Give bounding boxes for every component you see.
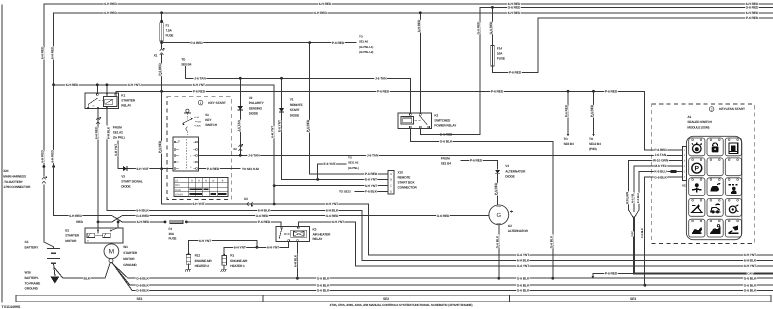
svg-text:MODULE (SSM): MODULE (SSM): [687, 125, 709, 129]
wire G-6 RED rail to alternator: [98, 214, 489, 222]
svg-text:X10: X10: [398, 171, 404, 175]
alternator G2: [489, 205, 529, 233]
wire P-6 RED to SE1 H-52: [199, 167, 260, 171]
svg-text:G-6 BLK: G-6 BLK: [495, 235, 499, 248]
svg-text:P-6 RED: P-6 RED: [365, 172, 378, 176]
svg-text:J-6 TAN: J-6 TAN: [655, 153, 667, 157]
wire J-6 TAN upper from TO SE0 B4: [181, 58, 410, 114]
svg-text:S1: S1: [205, 113, 209, 117]
svg-text:GROUND: GROUND: [25, 287, 39, 291]
svg-text:P-6 RED: P-6 RED: [306, 119, 310, 132]
svg-text:P-6 RED: P-6 RED: [470, 159, 483, 163]
svg-text:X2: X2: [233, 147, 237, 151]
relay K2 switched power relay: [398, 11, 457, 128]
keypad button blank right: [725, 158, 741, 176]
svg-text:W16: W16: [25, 271, 31, 275]
svg-text:W-10 GRN: W-10 GRN: [653, 158, 669, 162]
svg-text:6-H YNT: 6-H YNT: [193, 83, 205, 87]
label 2 KEYLESS START: [709, 107, 745, 112]
svg-text:F1: F1: [166, 24, 170, 28]
svg-text:(3x PNL L2): (3x PNL L2): [359, 50, 373, 54]
svg-text:ALTERNATOR: ALTERNATOR: [508, 229, 529, 233]
wire 6-H BLK K3 coil ground: [294, 242, 298, 278]
svg-text:6-H YNT: 6-H YNT: [365, 184, 377, 188]
wire 6-H RED top rail 2: [54, 11, 773, 15]
wire G-6 BLK ground rail 2: [112, 263, 773, 288]
svg-text:6-H BLK: 6-H BLK: [107, 126, 111, 139]
svg-text:6-H RED: 6-H RED: [319, 2, 332, 6]
svg-text:6-H BLK: 6-H BLK: [326, 209, 339, 213]
ground W1 starter motor ground: [109, 245, 138, 267]
svg-text:R12: R12: [195, 254, 201, 258]
wire 6-H RED battery feed to starter: [50, 13, 122, 222]
switch S1 position table: [174, 178, 228, 197]
svg-text:G-6 BLK: G-6 BLK: [317, 276, 330, 280]
svg-text:G-6 BLK: G-6 BLK: [136, 283, 149, 287]
svg-text:6-H YNT: 6-H YNT: [192, 202, 204, 206]
svg-text:S1: S1: [175, 179, 179, 182]
svg-text:R1: R1: [230, 254, 234, 258]
svg-text:6-H YNT: 6-H YNT: [326, 202, 338, 206]
svg-text:6-H YNT: 6-H YNT: [267, 245, 279, 249]
bus bar SE1: [16, 295, 263, 302]
svg-text:G-6 BLK: G-6 BLK: [654, 175, 667, 179]
wire G-6 BLK alternator ground: [495, 225, 500, 280]
connector X2 break: [233, 144, 243, 151]
svg-text:J-6 TAN: J-6 TAN: [375, 76, 387, 80]
svg-text:2: 2: [711, 107, 713, 111]
svg-text:RUN: RUN: [175, 189, 181, 192]
wire battery negative: [54, 263, 111, 281]
svg-text:SE12 B4: SE12 B4: [589, 142, 601, 146]
svg-text:K3: K3: [313, 228, 317, 232]
svg-text:6-H RED: 6-H RED: [41, 46, 45, 59]
connector X1 break: [154, 48, 165, 58]
svg-text:G-6 BLK: G-6 BLK: [744, 288, 757, 292]
svg-text:6-H RED: 6-H RED: [314, 11, 327, 15]
svg-text:6-H RED: 6-H RED: [137, 220, 150, 224]
diode V2 polarity sensing: [237, 78, 265, 155]
wire P-6 RED ignition rail: [116, 89, 682, 152]
svg-text:FUSE: FUSE: [497, 57, 505, 61]
svg-text:CAV: CAV: [631, 231, 634, 236]
connector X24 break: [42, 165, 55, 183]
svg-text:P-6 RED: P-6 RED: [509, 71, 522, 75]
svg-text:TO: TO: [564, 137, 569, 141]
svg-text:P-6 RED: P-6 RED: [258, 220, 271, 224]
keypad button park: [689, 158, 705, 176]
harness bundle merge: [629, 210, 773, 276]
svg-text:J-6 TAN: J-6 TAN: [248, 153, 260, 157]
diode V1 remote start: [277, 78, 302, 179]
wire G-6 BLK keypad ground: [641, 175, 682, 285]
svg-text:FUSE: FUSE: [166, 34, 174, 38]
svg-text:G: G: [496, 212, 501, 219]
svg-text:CAV: CAV: [747, 272, 753, 276]
svg-text:-TO-BATTERY: -TO-BATTERY: [3, 180, 24, 184]
svg-text:X24: X24: [3, 169, 9, 173]
svg-text:M-6 YEL: M-6 YEL: [632, 193, 635, 203]
svg-text:TO: TO: [589, 137, 594, 141]
svg-text:G-6 BLK: G-6 BLK: [517, 276, 530, 280]
svg-text:6-H YNT: 6-H YNT: [114, 144, 118, 156]
keypad button aux mode 1: [689, 219, 705, 237]
svg-text:G-6 RED: G-6 RED: [136, 214, 149, 218]
svg-text:6-H YNT: 6-H YNT: [136, 167, 148, 171]
svg-text:X3: X3: [244, 197, 248, 201]
svg-text:ENGINE AIR: ENGINE AIR: [195, 259, 213, 263]
svg-text:J-6 TAN: J-6 TAN: [194, 76, 206, 80]
fuse F4: [169, 220, 188, 240]
svg-text:P-6 RED: P-6 RED: [565, 104, 569, 117]
svg-text:MAIN HARNESS: MAIN HARNESS: [3, 174, 26, 178]
svg-text:KEYLESS START: KEYLESS START: [719, 107, 745, 111]
svg-text:(3x PNL): (3x PNL): [113, 136, 125, 140]
wire P-6 RED from SE1 to alternator: [441, 157, 498, 169]
svg-text:6-H RED: 6-H RED: [66, 83, 79, 87]
svg-text:P-6 RED: P-6 RED: [746, 16, 759, 20]
svg-text:POLARITY: POLARITY: [249, 101, 265, 105]
wire P-6 RED to X10 pin A: [306, 43, 388, 177]
keypad button blank middle: [707, 158, 723, 176]
svg-text:P-6 RED: P-6 RED: [494, 182, 498, 195]
wire 6-H BLK relay to rail: [107, 109, 773, 263]
svg-text:F14: F14: [497, 47, 502, 51]
svg-text:E-6 YNT: E-6 YNT: [365, 178, 377, 182]
wire 6-H YNT heater 2 feed: [189, 239, 259, 253]
diode V3 start signal: [113, 125, 162, 188]
svg-text:G-6 RED: G-6 RED: [746, 6, 759, 10]
svg-text:C: C: [390, 185, 392, 188]
keypad button ride control: [707, 199, 723, 217]
svg-text:TX114499S: TX114499S: [2, 305, 21, 309]
svg-text:16A: 16A: [497, 52, 503, 56]
keypad button engine start: [689, 138, 705, 156]
svg-text:G-6 BLK: G-6 BLK: [440, 140, 453, 144]
svg-text:E-6 YNT: E-6 YNT: [277, 120, 281, 132]
svg-text:POWER RELAY: POWER RELAY: [434, 123, 457, 127]
svg-text:DIODE: DIODE: [290, 113, 299, 117]
svg-text:FROM: FROM: [441, 157, 450, 161]
svg-text:START BOX: START BOX: [398, 181, 416, 185]
svg-text:SE2: SE2: [383, 297, 389, 301]
svg-text:6-H RED: 6-H RED: [746, 11, 759, 15]
switch S1 rotary symbol: [182, 109, 218, 137]
svg-text:B1: B1: [178, 139, 180, 142]
svg-text:KEY: KEY: [205, 118, 212, 122]
svg-text:G2: G2: [508, 224, 512, 228]
svg-text:6-H RED: 6-H RED: [104, 2, 117, 6]
wire stub TO SE12 B4: [589, 91, 601, 151]
svg-text:FROM: FROM: [113, 125, 122, 129]
svg-text:M-6 YEL: M-6 YEL: [654, 164, 666, 168]
svg-text:K2: K2: [434, 113, 438, 117]
bus bar SE3: [510, 295, 772, 302]
label 1 KEY START: [198, 100, 226, 105]
svg-text:6-H YNT: 6-H YNT: [271, 126, 275, 138]
wire J-6 TAN key switch output rail: [199, 153, 682, 157]
keypad button boom mode: [689, 199, 705, 217]
wire P-6 RED fuse F1 branch: [160, 41, 356, 49]
wire G-6 RED top rail: [440, 6, 773, 137]
svg-text:J-6 TAN: J-6 TAN: [367, 153, 379, 157]
svg-text:G-6 YNT: G-6 YNT: [517, 253, 529, 257]
svg-text:DIODE: DIODE: [505, 175, 514, 179]
wire 6-H RED top rail 1: [44, 2, 773, 6]
svg-text:SE0 B4: SE0 B4: [181, 63, 191, 67]
svg-text:RED: RED: [76, 220, 83, 224]
svg-text:G-6 RED: G-6 RED: [489, 21, 493, 34]
svg-text:SE1: SE1: [136, 297, 142, 301]
svg-text:V4: V4: [505, 164, 509, 168]
svg-text:P-6 RED: P-6 RED: [190, 41, 203, 45]
keypad button creep speed: [707, 178, 723, 196]
wire G-6 BLK from K2: [410, 128, 554, 279]
svg-text:D: D: [390, 191, 392, 194]
svg-text:6-H BLK: 6-H BLK: [294, 254, 298, 267]
svg-text:6-H RED: 6-H RED: [104, 11, 117, 15]
svg-text:6-H BLK: 6-H BLK: [744, 259, 757, 263]
keypad button aux mode 3: [725, 219, 741, 237]
svg-text:G-6 RED: G-6 RED: [508, 6, 521, 10]
svg-text:SWITCHED: SWITCHED: [434, 118, 451, 122]
svg-text:6-H BLK: 6-H BLK: [258, 209, 271, 213]
wire W-10 GRN to pin 3: [626, 158, 682, 209]
keypad button engine stop: [707, 138, 723, 156]
svg-text:G-6 BLK: G-6 BLK: [517, 288, 530, 292]
svg-text:A1: A1: [687, 115, 691, 119]
keypad button auto idle: [725, 138, 741, 156]
svg-text:6-H RED: 6-H RED: [50, 150, 54, 163]
svg-text:B: B: [390, 179, 392, 182]
svg-text:TO SE1 H-52: TO SE1 H-52: [242, 167, 259, 171]
svg-text:V3: V3: [121, 175, 125, 179]
svg-text:P-6 RED: P-6 RED: [590, 104, 594, 117]
wire P-6 RED fuse F4 to K3: [186, 220, 281, 226]
svg-text:(3x PNL): (3x PNL): [348, 166, 359, 170]
keypad A1 sealed switch module outline: [686, 136, 741, 239]
svg-text:V2: V2: [249, 96, 253, 100]
wire 6-H YNT to X10 pin C: [274, 184, 388, 188]
svg-text:W-10 GRN: W-10 GRN: [626, 192, 629, 204]
relay K3 air heater relay: [276, 227, 331, 242]
battery G1: [25, 240, 61, 263]
svg-text:K1: K1: [121, 94, 125, 98]
wire P-6 RED to key switch: [158, 55, 173, 171]
svg-text:MOTOR: MOTOR: [123, 257, 135, 261]
fuse F14: [489, 7, 505, 66]
svg-text:MOTOR: MOTOR: [65, 239, 77, 243]
svg-text:STARTER: STARTER: [65, 234, 80, 238]
svg-text:G-6 RED: G-6 RED: [326, 214, 339, 218]
svg-text:1: 1: [200, 101, 202, 105]
svg-text:BATTERY: BATTERY: [25, 245, 40, 249]
wire P-6 RED bundle reference: [592, 272, 634, 279]
starter motor B1 solenoid: [65, 221, 123, 244]
svg-text:F-6 BLK: F-6 BLK: [641, 228, 644, 238]
svg-text:START: START: [290, 108, 300, 112]
svg-text:SE3: SE3: [630, 297, 636, 301]
svg-text:SE1 B4: SE1 B4: [441, 162, 451, 166]
svg-text:G-6 BLK: G-6 BLK: [549, 235, 553, 248]
svg-text:6-H RED: 6-H RED: [41, 150, 45, 163]
svg-text:START: START: [175, 194, 184, 197]
wire E-6 YNT remote start to X10 pin B: [282, 156, 388, 182]
svg-text:M: M: [109, 249, 115, 256]
wire G-6 RED from K2: [420, 128, 480, 134]
svg-text:6-H BLK: 6-H BLK: [136, 209, 149, 213]
svg-text:TO SE13: TO SE13: [339, 190, 351, 194]
svg-text:REMOTE: REMOTE: [398, 176, 411, 180]
svg-text:30A: 30A: [169, 232, 175, 236]
svg-text:6-H YNT: 6-H YNT: [128, 83, 140, 87]
svg-text:G-6 BLK: G-6 BLK: [317, 283, 330, 287]
svg-text:START SIGNAL: START SIGNAL: [121, 180, 143, 184]
connector X10 remote start box: [388, 171, 418, 194]
svg-text:6-H YNT: 6-H YNT: [744, 253, 756, 257]
svg-text:SEALED SWITCH: SEALED SWITCH: [687, 120, 712, 124]
wire stub TO SE6 B4: [564, 91, 574, 146]
svg-text:G-6 RED: G-6 RED: [437, 214, 450, 218]
svg-text:G-6 BLK: G-6 BLK: [744, 283, 757, 287]
svg-text:4T0S, 4T6S, 4H6S, 4X6S, 4H6 MA: 4T0S, 4T6S, 4H6S, 4X6S, 4H6 MANUAL CONTR…: [330, 303, 473, 307]
svg-text:SE1 A6: SE1 A6: [359, 40, 368, 44]
wire G-6 BLK ground rail 1: [111, 263, 772, 281]
svg-text:OFF: OFF: [175, 184, 181, 187]
keypad button work lights: [725, 178, 741, 196]
wire 6-H YNT key start feed: [54, 83, 276, 205]
svg-text:P-6 RED: P-6 RED: [491, 89, 504, 93]
ground W16 battery-to-frame: [25, 271, 60, 291]
wire 6-H RED starter relay drop: [94, 109, 99, 224]
svg-text:F4: F4: [169, 227, 173, 231]
wire battery positive drop: [41, 4, 54, 249]
resistor R1 engine air heater 1: [221, 254, 248, 272]
svg-text:P-6 RED: P-6 RED: [158, 140, 162, 153]
wire M-6 YEL to pin 4: [632, 164, 682, 211]
svg-text:DIODE: DIODE: [121, 185, 130, 189]
svg-text:G-6 BLK: G-6 BLK: [317, 288, 330, 292]
svg-text:P-6 RED: P-6 RED: [605, 89, 618, 93]
svg-text:F-6 BLK: F-6 BLK: [365, 190, 378, 194]
svg-text:P-6 RED: P-6 RED: [332, 41, 345, 45]
starter motor M: [104, 244, 119, 259]
relay K1 starter relay: [85, 93, 136, 109]
svg-text:6-H YNT: 6-H YNT: [234, 245, 246, 249]
keypad button two speed: [689, 178, 705, 196]
wire 6-H YNT heater 1 feed: [224, 242, 289, 254]
svg-text:STARTER: STARTER: [123, 251, 138, 255]
switch S1 contact block: [173, 137, 199, 171]
svg-text:6-H YNT: 6-H YNT: [744, 264, 756, 268]
svg-text:6-H RED: 6-H RED: [417, 19, 421, 32]
svg-text:KEY START: KEY START: [208, 101, 226, 105]
wire RED battery to fuse F4: [76, 220, 166, 224]
wire G-6 BLK ground rail 3: [112, 263, 772, 293]
svg-text:SE6 B4: SE6 B4: [564, 142, 574, 146]
svg-text:HEATER 1: HEATER 1: [230, 264, 245, 268]
svg-text:TO: TO: [181, 58, 186, 62]
svg-text:TO-FRAME: TO-FRAME: [25, 281, 41, 285]
svg-text:P-6 RED: P-6 RED: [605, 272, 618, 276]
svg-text:P-6 RED: P-6 RED: [158, 63, 162, 76]
svg-text:A: A: [390, 173, 392, 176]
connector break on starter drop: [96, 118, 100, 124]
svg-text:K-6 BLU: K-6 BLU: [654, 170, 667, 174]
connector X11 sealed switch module: [682, 147, 687, 188]
svg-text:85: 85: [93, 104, 95, 107]
svg-text:ALTERNATOR: ALTERNATOR: [505, 169, 526, 173]
key start group box: [167, 97, 231, 200]
svg-text:STARTER: STARTER: [121, 99, 136, 103]
svg-text:6-H YNT: 6-H YNT: [332, 220, 344, 224]
keypad button aux mode 2: [707, 219, 723, 237]
svg-text:REMOTE: REMOTE: [290, 103, 303, 107]
svg-text:G-6 BLK: G-6 BLK: [136, 288, 149, 292]
svg-text:6-H RED: 6-H RED: [69, 214, 82, 218]
svg-text:HEATER 2: HEATER 2: [195, 264, 210, 268]
svg-text:B1: B1: [65, 229, 69, 233]
svg-text:G-6 RED: G-6 RED: [477, 21, 481, 34]
fuse F1: [160, 13, 174, 41]
resistor R12 engine air heater 2: [185, 253, 212, 272]
svg-text:G-6 BLK: G-6 BLK: [136, 276, 149, 280]
svg-text:G-6 RED: G-6 RED: [256, 214, 269, 218]
wire 6-H YNT start signal rail: [162, 169, 773, 257]
svg-text:(P4D): (P4D): [589, 147, 597, 151]
svg-text:SWITCH: SWITCH: [205, 123, 218, 127]
svg-text:G1: G1: [25, 240, 29, 244]
svg-text:SE1 A2: SE1 A2: [113, 131, 123, 135]
wire 6-H YNT air heater power out: [298, 220, 772, 268]
svg-text:P: P: [695, 165, 700, 173]
svg-text:7.5A: 7.5A: [166, 29, 173, 33]
svg-text:X1: X1: [154, 54, 158, 58]
svg-text:P-6 RED: P-6 RED: [377, 89, 390, 93]
svg-text:W1: W1: [123, 245, 128, 249]
svg-text:G-6 YNT: G-6 YNT: [517, 264, 529, 268]
svg-text:V1: V1: [290, 98, 294, 102]
wire F-6 BLK to X10 pin D: [339, 190, 388, 194]
svg-text:SENSING: SENSING: [249, 106, 263, 110]
svg-text:J-6 TAN: J-6 TAN: [237, 120, 241, 132]
svg-text:6-H YNT: 6-H YNT: [199, 239, 211, 243]
diode V4 alternator diode: [494, 164, 526, 204]
svg-text:K-6 BLU: K-6 BLU: [637, 193, 640, 203]
keypad button quick coupler: [725, 199, 741, 217]
keyless start group box: [652, 104, 755, 243]
svg-text:6-H BLK: 6-H BLK: [517, 259, 530, 263]
svg-text:E-6 YNT: E-6 YNT: [324, 162, 336, 166]
svg-text:AIR HEATER: AIR HEATER: [313, 232, 332, 236]
svg-text:RELAY: RELAY: [121, 104, 132, 108]
svg-text:P-6 RED: P-6 RED: [654, 148, 667, 152]
svg-text:G-6 BLK: G-6 BLK: [517, 283, 530, 287]
svg-text:CONNECTOR: CONNECTOR: [398, 186, 418, 190]
svg-text:SE11 A2: SE11 A2: [348, 161, 359, 165]
svg-text:ENGINE AIR: ENGINE AIR: [230, 259, 248, 263]
svg-text:P-6 RED: P-6 RED: [193, 89, 206, 93]
svg-text:1 PIN CONNECTOR: 1 PIN CONNECTOR: [3, 185, 31, 189]
svg-text:G-6 BLK: G-6 BLK: [744, 276, 757, 280]
svg-text:FUSE: FUSE: [169, 237, 177, 241]
wire P-6 RED top rail from fuse F14: [492, 16, 772, 75]
svg-text:6-H RED: 6-H RED: [50, 46, 54, 59]
svg-text:P-6 RED: P-6 RED: [207, 167, 220, 171]
frame left border: [1, 5, 3, 302]
svg-text:BATTERY-: BATTERY-: [25, 276, 40, 280]
svg-text:DIODE: DIODE: [249, 112, 258, 116]
